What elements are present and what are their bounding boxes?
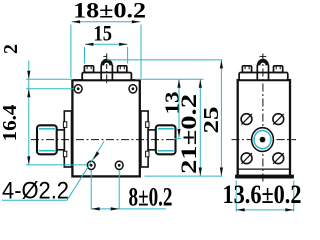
shared bottom extension (21/25) [145,175,223,177]
right connector hex nut [156,125,176,154]
side hole upper-right [273,114,284,125]
side hole lower-left [241,153,252,164]
svg-text:13.6±0.2: 13.6±0.2 [223,180,302,209]
front horizontal centerline [31,139,177,141]
front top connector centerline [106,54,108,84]
dim 13 line [177,79,180,137]
front screw bottom-left [87,161,95,169]
side horizontal centerline [232,139,297,141]
dim 25 line [220,60,223,176]
dim 2 extension lines [26,78,73,80]
front view body [72,80,139,176]
side hole lower-right [273,153,284,164]
side bottom bar [235,175,294,179]
side seam line [238,168,290,170]
left connector hex nut [37,125,57,154]
side top flange plate [239,73,288,81]
dim 8±0.2 line [91,207,166,210]
dim 2 / 16.4 vertical line [28,61,30,165]
dim 13 bottom extension [175,138,181,140]
dim 16.4 bottom arrow [27,156,30,165]
right connector flange plate [141,111,149,167]
dim 25 top extension (from dome top) [107,59,223,61]
dim 2 arrows [27,71,30,80]
dim 13.6±0.2 extension lines [235,181,237,212]
svg-text:15: 15 [94,21,113,46]
side top connector dome [257,56,269,80]
callout underline [2,199,67,201]
front top connector dome [101,56,113,80]
front top screw head right [118,66,127,73]
left connector flange plate [63,111,71,167]
dim 15 line [85,43,128,46]
dim 13.6±0.2 line [236,208,294,211]
dim 18±0.2 line [72,20,141,23]
side top screw head left [242,66,251,73]
svg-text:25: 25 [199,107,223,134]
front screw top-left [74,85,82,93]
front screw bottom-right [115,161,123,169]
svg-text:16.4: 16.4 [0,105,21,142]
svg-text:8±0.2: 8±0.2 [129,183,173,212]
svg-text:21±0.2: 21±0.2 [176,94,201,174]
callout leader [67,142,104,201]
callout leader arrow [93,152,99,160]
front top flange plate [82,73,131,81]
front screw top-right [129,85,137,93]
svg-text:18±0.2: 18±0.2 [73,0,146,22]
dim 15 extension lines [84,47,86,64]
side hole upper-left [241,114,252,125]
dim 16.4 extension line [26,164,87,166]
side center connector [252,128,274,152]
right connector neck [148,130,156,150]
side view body [238,80,290,176]
svg-text:2: 2 [0,44,22,54]
dim 18 extension lines [70,25,72,79]
left connector neck [57,130,65,150]
shared top extension (13/21) [135,78,203,80]
dim 8±0.2 extension lines [90,170,92,209]
dim 21±0.2 line [199,79,202,176]
side vertical centerline [262,54,264,183]
front top screw head left [84,66,93,73]
side top screw head right [274,66,283,73]
